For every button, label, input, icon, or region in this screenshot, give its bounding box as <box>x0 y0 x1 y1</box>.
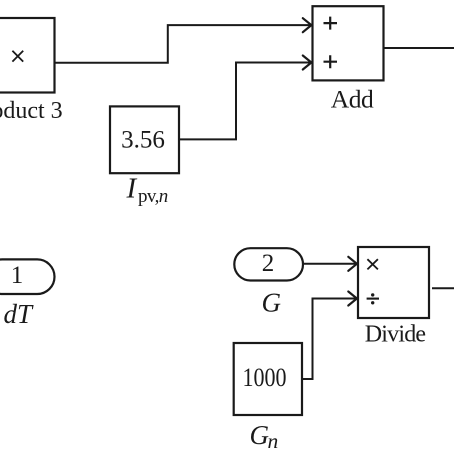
arrowhead into Add input 1 <box>303 18 312 32</box>
svg-text:G: G <box>250 420 270 450</box>
svg-text:I: I <box>126 173 138 205</box>
wire Add output <box>384 47 454 49</box>
svg-text:2: 2 <box>262 250 275 277</box>
svg-text:pv,n: pv,n <box>138 186 168 207</box>
inport block 1 (dT) <box>0 259 55 294</box>
label Add <box>331 85 374 114</box>
svg-text:n: n <box>268 429 279 453</box>
constant block 3.56 <box>110 106 179 173</box>
arrowhead into Divide input 1 <box>348 257 357 271</box>
wire from 2 to Divide input 1 <box>303 263 356 265</box>
sum block Add <box>313 6 384 80</box>
label G_n <box>250 420 279 453</box>
arrowhead into Add input 2 <box>303 56 312 70</box>
wire Divide output <box>432 287 454 289</box>
arrowhead into Divide input 2 <box>348 292 357 306</box>
label Divide <box>365 322 426 348</box>
label I_pv,n <box>126 173 168 208</box>
wire from 3.56 output to Add input 2 <box>179 63 311 140</box>
wire from 1000 output to Divide input 2 <box>302 299 356 380</box>
svg-text:Add: Add <box>331 85 374 114</box>
inport block 2 (G) <box>234 248 303 280</box>
divide block Divide <box>358 247 429 318</box>
svg-text:1: 1 <box>11 262 24 289</box>
label G <box>262 287 282 317</box>
svg-text:3.56: 3.56 <box>121 127 165 154</box>
product block Product 3 <box>0 18 55 93</box>
svg-text:Divide: Divide <box>365 322 426 348</box>
svg-text:dT: dT <box>4 299 35 329</box>
constant block 1000 <box>234 343 302 415</box>
svg-text:Product 3: Product 3 <box>0 98 63 124</box>
wire from Product 3 output to Add input 1 <box>54 25 311 63</box>
svg-text:1000: 1000 <box>243 363 287 392</box>
svg-text:G: G <box>262 287 282 317</box>
label dT <box>4 299 35 329</box>
label Product 3 <box>0 98 63 124</box>
